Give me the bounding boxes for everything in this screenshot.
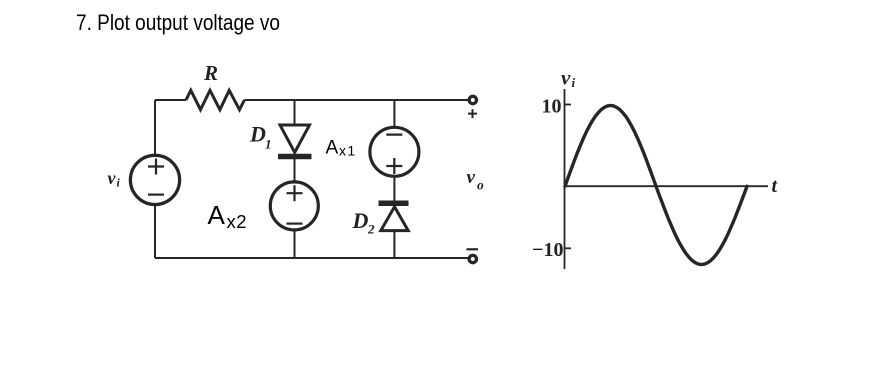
svg-text:1: 1	[265, 137, 272, 152]
svg-text:D: D	[249, 121, 266, 146]
svg-text:o: o	[477, 178, 484, 193]
output terminal bottom	[469, 255, 476, 262]
tick +10	[565, 104, 572, 106]
wire: left rail vertical segments	[154, 100, 156, 258]
svg-text:v: v	[108, 168, 117, 188]
svg-text:A: A	[208, 200, 226, 230]
wire: bottom rail	[155, 257, 468, 259]
svg-text:D: D	[352, 208, 369, 233]
voltage source VI minus sign	[148, 194, 164, 196]
svg-text:v: v	[467, 167, 476, 188]
wire: middle branch bottom	[294, 230, 296, 258]
minus mark at output bottom	[467, 248, 479, 250]
output terminal top	[469, 96, 476, 103]
sine wave vi	[565, 106, 747, 265]
svg-text:t: t	[772, 175, 779, 197]
voltage source AX2 minus sign	[287, 223, 303, 225]
graph vertical axis	[564, 89, 566, 269]
voltage source AX1 circle	[370, 127, 419, 176]
diode D1 (pointing down)	[280, 125, 310, 153]
svg-text:i: i	[117, 176, 121, 190]
voltage source VI circle	[130, 155, 179, 204]
graph horizontal t axis	[565, 185, 769, 187]
voltage source AX2 plus sign	[287, 185, 303, 201]
resistor R	[186, 90, 244, 109]
diode D2 (pointing up)	[379, 200, 409, 206]
wire: top rail left segment	[155, 99, 186, 101]
wire: D1 to source Ax2	[294, 159, 296, 182]
svg-text:x2: x2	[227, 211, 248, 232]
svg-text:R: R	[203, 61, 218, 85]
wire: right branch bottom	[393, 231, 395, 258]
svg-text:7. Plot output voltage vo: 7. Plot output voltage vo	[76, 10, 280, 35]
wire: middle branch top	[294, 100, 296, 126]
wire: source Ax1 to D2	[393, 178, 395, 202]
wire: right branch top	[393, 100, 395, 127]
svg-text:x1: x1	[339, 143, 357, 159]
svg-text:2: 2	[367, 222, 375, 237]
voltage source AX1 plus sign	[386, 158, 402, 174]
wire: top rail right segment	[244, 99, 468, 101]
svg-text:A: A	[326, 138, 339, 159]
tick -10	[565, 247, 572, 249]
voltage source AX1 minus sign	[386, 134, 402, 136]
voltage source VI plus sign	[148, 159, 164, 175]
svg-text:10: 10	[542, 96, 562, 118]
plus mark at output top	[468, 109, 477, 118]
svg-text:v: v	[561, 66, 571, 90]
svg-text:−10: −10	[532, 239, 563, 261]
svg-text:i: i	[572, 75, 576, 90]
voltage source AX2 circle	[270, 182, 318, 230]
